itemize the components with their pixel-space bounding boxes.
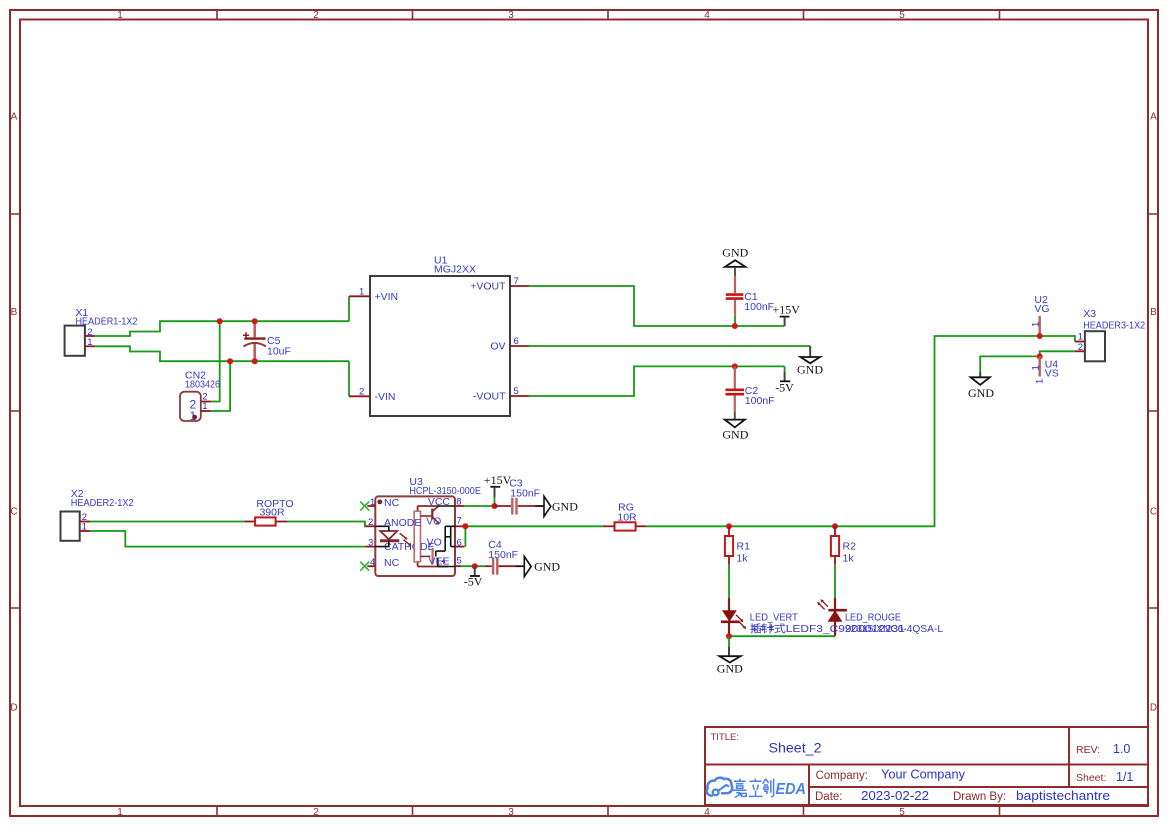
wire U3 VEE to C4 [461,565,485,567]
capacitor C4 150nF [485,539,518,575]
svg-text:+VIN: +VIN [375,291,399,303]
U3 pin 8 VCC [455,505,464,507]
junction dot VCC [492,503,498,509]
svg-text:5: 5 [514,386,519,397]
svg-text:1/1: 1/1 [1116,770,1133,784]
junction dot LED bus [726,633,732,639]
svg-text:-5V: -5V [775,381,794,395]
resistor ROPTO 390R [244,498,293,526]
junction dot U4 [1037,353,1043,359]
logo EasyEDA cloud icon [707,778,733,796]
capacitor C3 150nF [495,478,541,515]
svg-text:VEE: VEE [428,555,449,567]
U3 internal output stage [414,506,455,567]
wire RG to right riser and X3 pin1 [646,336,1075,526]
power flag -5V at U3 [464,566,483,588]
power flag +15V at U3 [484,473,512,506]
svg-text:2: 2 [359,386,364,397]
wire U1 -VOUT to -5V [529,366,785,396]
wire U1 OV to GND [529,345,810,347]
wire X1 pin1 to -VIN bus [95,346,349,361]
wire X2 pin1 to U3 CATHODE [90,531,365,547]
U3 pin 7 VO [455,525,464,527]
junction dot C1 [732,323,738,329]
svg-text:7: 7 [457,516,462,527]
svg-text:6: 6 [514,336,519,347]
svg-text:6: 6 [457,537,462,548]
svg-text:Company:: Company: [816,770,868,782]
LED value CJK stroke filler [752,624,774,631]
svg-text:REV:: REV: [1076,744,1100,756]
junction dot VEE [472,563,478,569]
svg-text:1: 1 [1031,322,1042,327]
U3 internal LED diode [375,526,411,546]
svg-text:R2: R2 [843,541,857,553]
resistor RG 10R [603,501,647,530]
svg-text:EDA: EDA [776,781,807,798]
U3 pin 2 ANODE [365,525,375,527]
svg-text:GND: GND [534,560,560,574]
svg-text:2: 2 [368,517,373,528]
svg-text:-5V: -5V [464,575,483,589]
U3 no-connect cross pin4 [360,562,369,571]
wire R1 to LED_VERT [728,565,730,598]
svg-text:C: C [1150,507,1157,518]
svg-text:LED_ROUGE: LED_ROUGE [845,611,901,623]
ground symbol below C2 [722,411,748,441]
svg-text:5: 5 [899,807,905,818]
svg-text:VS: VS [1045,368,1059,380]
U3 pin 3 CATHODE [365,546,375,548]
svg-text:Sheet_2: Sheet_2 [769,741,822,756]
svg-text:NC: NC [384,497,400,509]
svg-text:Drawn By:: Drawn By: [953,791,1006,803]
svg-text:D: D [10,703,17,714]
wire U4 to GND [980,356,1039,371]
junction dots top bus [217,318,223,324]
svg-text:Your Company: Your Company [881,768,966,782]
svg-text:R1: R1 [737,541,751,553]
svg-text:GND: GND [717,662,743,676]
wire CN2 pin1 to bottom bus [211,361,230,411]
svg-text:B: B [11,307,18,318]
capacitor C2 100nF [726,366,775,411]
svg-text:VG: VG [1034,303,1049,315]
connector CN2 1803426 [180,370,220,424]
wire U3 VO junction [464,526,603,546]
LED LED_VERT [721,598,798,637]
svg-text:B: B [1150,307,1157,318]
border column numbers top [117,10,905,21]
svg-text:C: C [10,507,17,518]
svg-text:4: 4 [704,10,710,21]
svg-text:100nF: 100nF [745,395,775,407]
junction dot U2 [1037,333,1043,339]
wire ROPTO to U3 ANODE [287,522,365,527]
capacitor C5 10uF polarized [243,321,291,361]
svg-text:2: 2 [1078,342,1083,353]
svg-text:2023-02-22: 2023-02-22 [861,789,929,803]
svg-text:GND: GND [968,386,994,400]
svg-text:4: 4 [370,557,375,568]
svg-text:10uF: 10uF [267,346,291,358]
wire U1 pin1 drop [348,296,350,321]
svg-text:1803426: 1803426 [185,379,220,391]
resistor R1 1k [725,526,750,565]
svg-text:7: 7 [514,276,519,287]
pin U4 VS [1031,356,1059,384]
wire U1 pin2 drop [348,361,350,396]
U3 pin 1 NC [367,505,375,507]
connector X3 HEADER3-1X2 [1075,308,1145,361]
border row letters right [1150,112,1157,714]
svg-text:X3: X3 [1083,308,1096,320]
ground symbol above C1 [722,246,748,277]
svg-text:HEADER2-1X2: HEADER2-1X2 [71,497,134,509]
svg-text:8: 8 [456,497,461,508]
border column ticks bottom [217,806,1000,816]
svg-text:VO: VO [426,515,441,527]
ground symbol OV net [797,346,823,377]
svg-text:MGJ2XX: MGJ2XX [434,264,476,276]
svg-text:1: 1 [359,286,364,297]
svg-text:22315/XNC6-4QSA-L: 22315/XNC6-4QSA-L [845,623,943,635]
svg-text:A: A [11,112,18,123]
svg-text:baptistechantre: baptistechantre [1016,789,1110,803]
svg-text:GND: GND [722,246,748,260]
svg-text:-VIN: -VIN [375,391,396,403]
capacitor C1 100nF [726,276,774,326]
wire U3 VCC to C3 [464,505,494,507]
svg-text:1k: 1k [843,553,855,565]
svg-text:Sheet:: Sheet: [1076,772,1106,784]
IC U1 MGJ2XX [349,255,529,416]
junction dot C2 [732,363,738,369]
junction dot R2 top [832,523,838,529]
wire LED cathode bus [729,635,835,637]
resistor R2 1k [831,526,856,565]
power flag +15V [773,303,801,326]
title block frame [705,727,1148,805]
svg-text:HEADER3-1X2: HEADER3-1X2 [1083,320,1145,332]
svg-text:+VOUT: +VOUT [470,281,506,293]
svg-text:1.0: 1.0 [1113,742,1130,756]
svg-text:2: 2 [313,807,319,818]
svg-text:3: 3 [368,538,373,549]
svg-text:2: 2 [313,10,319,21]
border row ticks right [1148,214,1158,608]
svg-text:3: 3 [508,10,514,21]
ground symbol right of C4 [516,556,561,576]
logo EasyEDA CJK text [733,779,774,798]
power flag -5V [775,366,794,394]
border row letters left [10,112,17,714]
connector X1 HEADER1-1X2 [65,307,138,356]
svg-text:D: D [1150,703,1157,714]
svg-text:OV: OV [490,341,505,353]
connector X2 HEADER2-1X2 [61,488,134,541]
svg-text:3: 3 [508,807,514,818]
svg-text:GND: GND [797,363,823,377]
U3 pin 4 NC [367,565,375,567]
svg-text:1: 1 [202,401,207,412]
svg-text:10R: 10R [617,511,637,523]
IC U3 HCPL-3150-000E [360,476,481,576]
svg-text:NC: NC [384,557,400,569]
ground symbol below LEDs [717,636,743,675]
svg-text:390R: 390R [259,507,285,519]
svg-text:VO: VO [427,537,442,549]
wire CN2 pin2 to top bus [211,321,219,401]
ground symbol right of C3 [535,496,578,516]
wire R2 to LED_ROUGE [834,565,836,598]
svg-text:VCC: VCC [428,496,451,508]
svg-text:5: 5 [899,10,905,21]
wire X2 pin2 to ROPTO [90,521,244,523]
svg-text:5: 5 [457,556,462,567]
svg-text:1: 1 [1035,379,1046,384]
svg-text:Date:: Date: [815,791,843,803]
border column numbers bottom [117,807,905,818]
wire X1 pin2 to +VIN bus [95,321,349,336]
svg-text:150nF: 150nF [510,488,540,500]
svg-text:4: 4 [704,807,710,818]
svg-text:1: 1 [117,10,123,21]
svg-text:GND: GND [552,500,578,514]
svg-text:1k: 1k [737,553,749,565]
wire X3 pin2 to U4 [1040,351,1075,356]
svg-text:1: 1 [82,522,87,533]
ground symbol right side [968,372,994,401]
U3 no-connect cross pin1 [360,502,369,511]
svg-text:1: 1 [87,337,92,348]
U3 pin 5 VEE [455,565,461,567]
svg-text:ANODE: ANODE [384,517,421,529]
svg-text:-VOUT: -VOUT [473,391,506,403]
svg-text:1: 1 [1031,365,1042,370]
U3 pin 6 VO [455,546,465,548]
svg-text:1: 1 [370,497,375,508]
svg-text:100nF: 100nF [744,301,774,313]
LED LED_ROUGE [817,598,901,637]
wire U1 +VOUT to +15V [529,286,785,326]
border column ticks top [217,10,1000,20]
border row ticks left [10,214,20,608]
svg-text:TITLE:: TITLE: [711,732,740,743]
svg-text:LED_VERT: LED_VERT [750,611,799,623]
svg-text:A: A [1150,112,1157,123]
junction dot R1 top [726,523,732,529]
svg-text:GND: GND [722,428,748,442]
svg-text:1: 1 [117,807,123,818]
pin U2 VG [1031,294,1050,336]
junction dots bottom bus [227,358,233,364]
svg-text:+15V: +15V [484,473,512,487]
svg-text:+15V: +15V [773,303,801,317]
